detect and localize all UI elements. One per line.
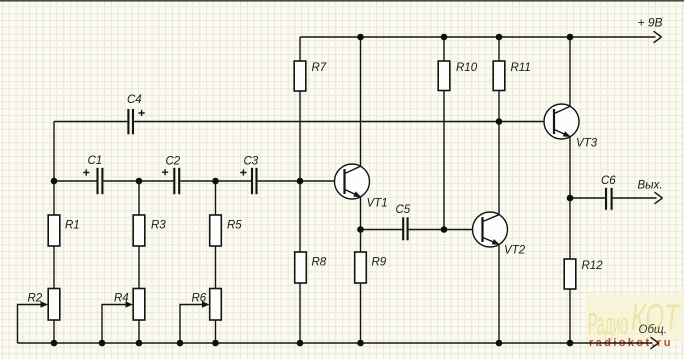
svg-text:R8: R8	[312, 257, 327, 269]
svg-text:C5: C5	[396, 204, 411, 216]
svg-text:R2: R2	[28, 293, 43, 305]
svg-text:Вых.: Вых.	[638, 180, 663, 192]
svg-text:C4: C4	[127, 94, 142, 106]
svg-text:R11: R11	[511, 62, 531, 74]
svg-text:R1: R1	[65, 220, 80, 232]
svg-text:C2: C2	[166, 156, 181, 168]
svg-text:C6: C6	[601, 175, 616, 187]
svg-text:R6: R6	[192, 293, 207, 305]
svg-text:VT1: VT1	[367, 198, 388, 210]
svg-text:Общ.: Общ.	[639, 324, 667, 336]
svg-text:R7: R7	[312, 62, 327, 74]
svg-text:R12: R12	[582, 260, 604, 272]
svg-text:C3: C3	[244, 156, 259, 168]
svg-text:R9: R9	[372, 257, 387, 269]
svg-text:R10: R10	[456, 62, 478, 74]
svg-text:R5: R5	[227, 220, 242, 232]
svg-text:Радио: Радио	[588, 306, 628, 341]
svg-text:R3: R3	[151, 220, 166, 232]
svg-text:+ 9В: + 9В	[638, 16, 663, 30]
svg-text:R4: R4	[114, 293, 129, 305]
svg-text:VT2: VT2	[504, 245, 526, 257]
svg-text:C1: C1	[88, 155, 103, 167]
svg-text:VT3: VT3	[576, 138, 598, 150]
